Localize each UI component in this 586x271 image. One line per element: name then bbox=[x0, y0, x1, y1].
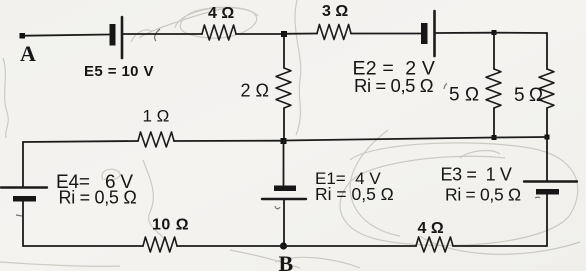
wire node B to 4ohm bottom bbox=[284, 245, 416, 247]
svg-text:1 Ω: 1 Ω bbox=[143, 107, 170, 126]
svg-text:4 Ω: 4 Ω bbox=[208, 5, 234, 22]
wire 5ohm left to mid rail bbox=[493, 108, 495, 138]
wire E1 to node B bbox=[283, 199, 285, 246]
wire 4ohm bottom to right corner bbox=[453, 245, 547, 247]
node M2 junction bbox=[492, 135, 497, 140]
wire 2ohm to node M1 bbox=[283, 108, 285, 141]
wire T1 down to 2ohm bbox=[283, 34, 285, 68]
wire right column upper bbox=[546, 33, 548, 69]
wire E3 to bottom-right corner bbox=[546, 195, 548, 247]
svg-text:E3 = 1 V: E3 = 1 V bbox=[441, 165, 512, 185]
wire bottom rail left to 10ohm bbox=[23, 245, 143, 247]
wire A to E5 bbox=[25, 35, 109, 36]
resistor 5ohm left bbox=[486, 69, 501, 108]
node T1 junction bbox=[281, 31, 287, 37]
node B junction bbox=[280, 242, 287, 249]
wire 4ohm to node T1 bbox=[236, 33, 284, 35]
wire 5ohm right to mid rail bbox=[546, 108, 548, 137]
svg-text:3 Ω: 3 Ω bbox=[322, 3, 348, 20]
battery E5 bbox=[110, 17, 123, 58]
wire 3ohm to E2 bbox=[351, 33, 421, 35]
resistor 2ohm bbox=[276, 68, 291, 108]
svg-text:Ri = 0,5 Ω: Ri = 0,5 Ω bbox=[354, 75, 434, 96]
battery E2 bbox=[421, 11, 435, 56]
svg-text:Ri = 0,5 Ω: Ri = 0,5 Ω bbox=[445, 185, 521, 205]
wire E2 to node T2 bbox=[436, 32, 494, 34]
wire mid rail left corner to 1ohm bbox=[23, 141, 138, 142]
svg-text:A: A bbox=[20, 41, 36, 66]
svg-text:4 Ω: 4 Ω bbox=[418, 220, 444, 237]
wire M1 to M2 bbox=[284, 138, 494, 141]
stray scan marks bbox=[16, 29, 540, 216]
wire 10ohm to node B bbox=[177, 245, 284, 247]
resistor 4ohm bottom bbox=[416, 237, 453, 252]
battery E4 bbox=[1, 188, 47, 202]
resistor 10ohm bbox=[143, 237, 177, 252]
node T2 junction bbox=[492, 30, 497, 35]
svg-text:E5 = 10 V: E5 = 10 V bbox=[84, 63, 154, 80]
wire mid rail to E3 bbox=[546, 137, 548, 181]
wire E4 to bottom-left corner bbox=[22, 202, 24, 247]
wire M2 to M3 bbox=[494, 136, 547, 139]
wire T2 to top-right corner bbox=[494, 32, 547, 34]
svg-text:Ri = 0,5 Ω: Ri = 0,5 Ω bbox=[315, 184, 394, 204]
node M3 junction bbox=[545, 135, 550, 140]
battery E1 bbox=[262, 186, 306, 200]
wire E5 to 4ohm bbox=[123, 33, 202, 35]
wire 5ohm-left column upper bbox=[493, 33, 495, 69]
wire 1ohm to M1 bbox=[174, 140, 283, 142]
svg-text:2 Ω: 2 Ω bbox=[241, 81, 269, 101]
battery E3 bbox=[524, 182, 577, 195]
svg-text:5 Ω: 5 Ω bbox=[514, 85, 543, 106]
wire T1 to 3ohm bbox=[284, 33, 317, 35]
wire mid rail to E4 bbox=[22, 142, 24, 187]
svg-text:5 Ω: 5 Ω bbox=[449, 85, 479, 106]
svg-text:10 Ω: 10 Ω bbox=[152, 217, 189, 234]
node A terminal bbox=[20, 33, 26, 39]
svg-text:B: B bbox=[279, 251, 294, 271]
svg-text:Ri = 0,5 Ω: Ri = 0,5 Ω bbox=[59, 188, 137, 208]
node M1 junction bbox=[281, 138, 287, 144]
wire M1 down to E1 bbox=[283, 141, 285, 186]
resistor 1ohm bbox=[138, 132, 174, 147]
resistor 4ohm top bbox=[202, 25, 236, 40]
resistor 3ohm top bbox=[317, 25, 351, 40]
resistor 5ohm right bbox=[539, 69, 554, 108]
